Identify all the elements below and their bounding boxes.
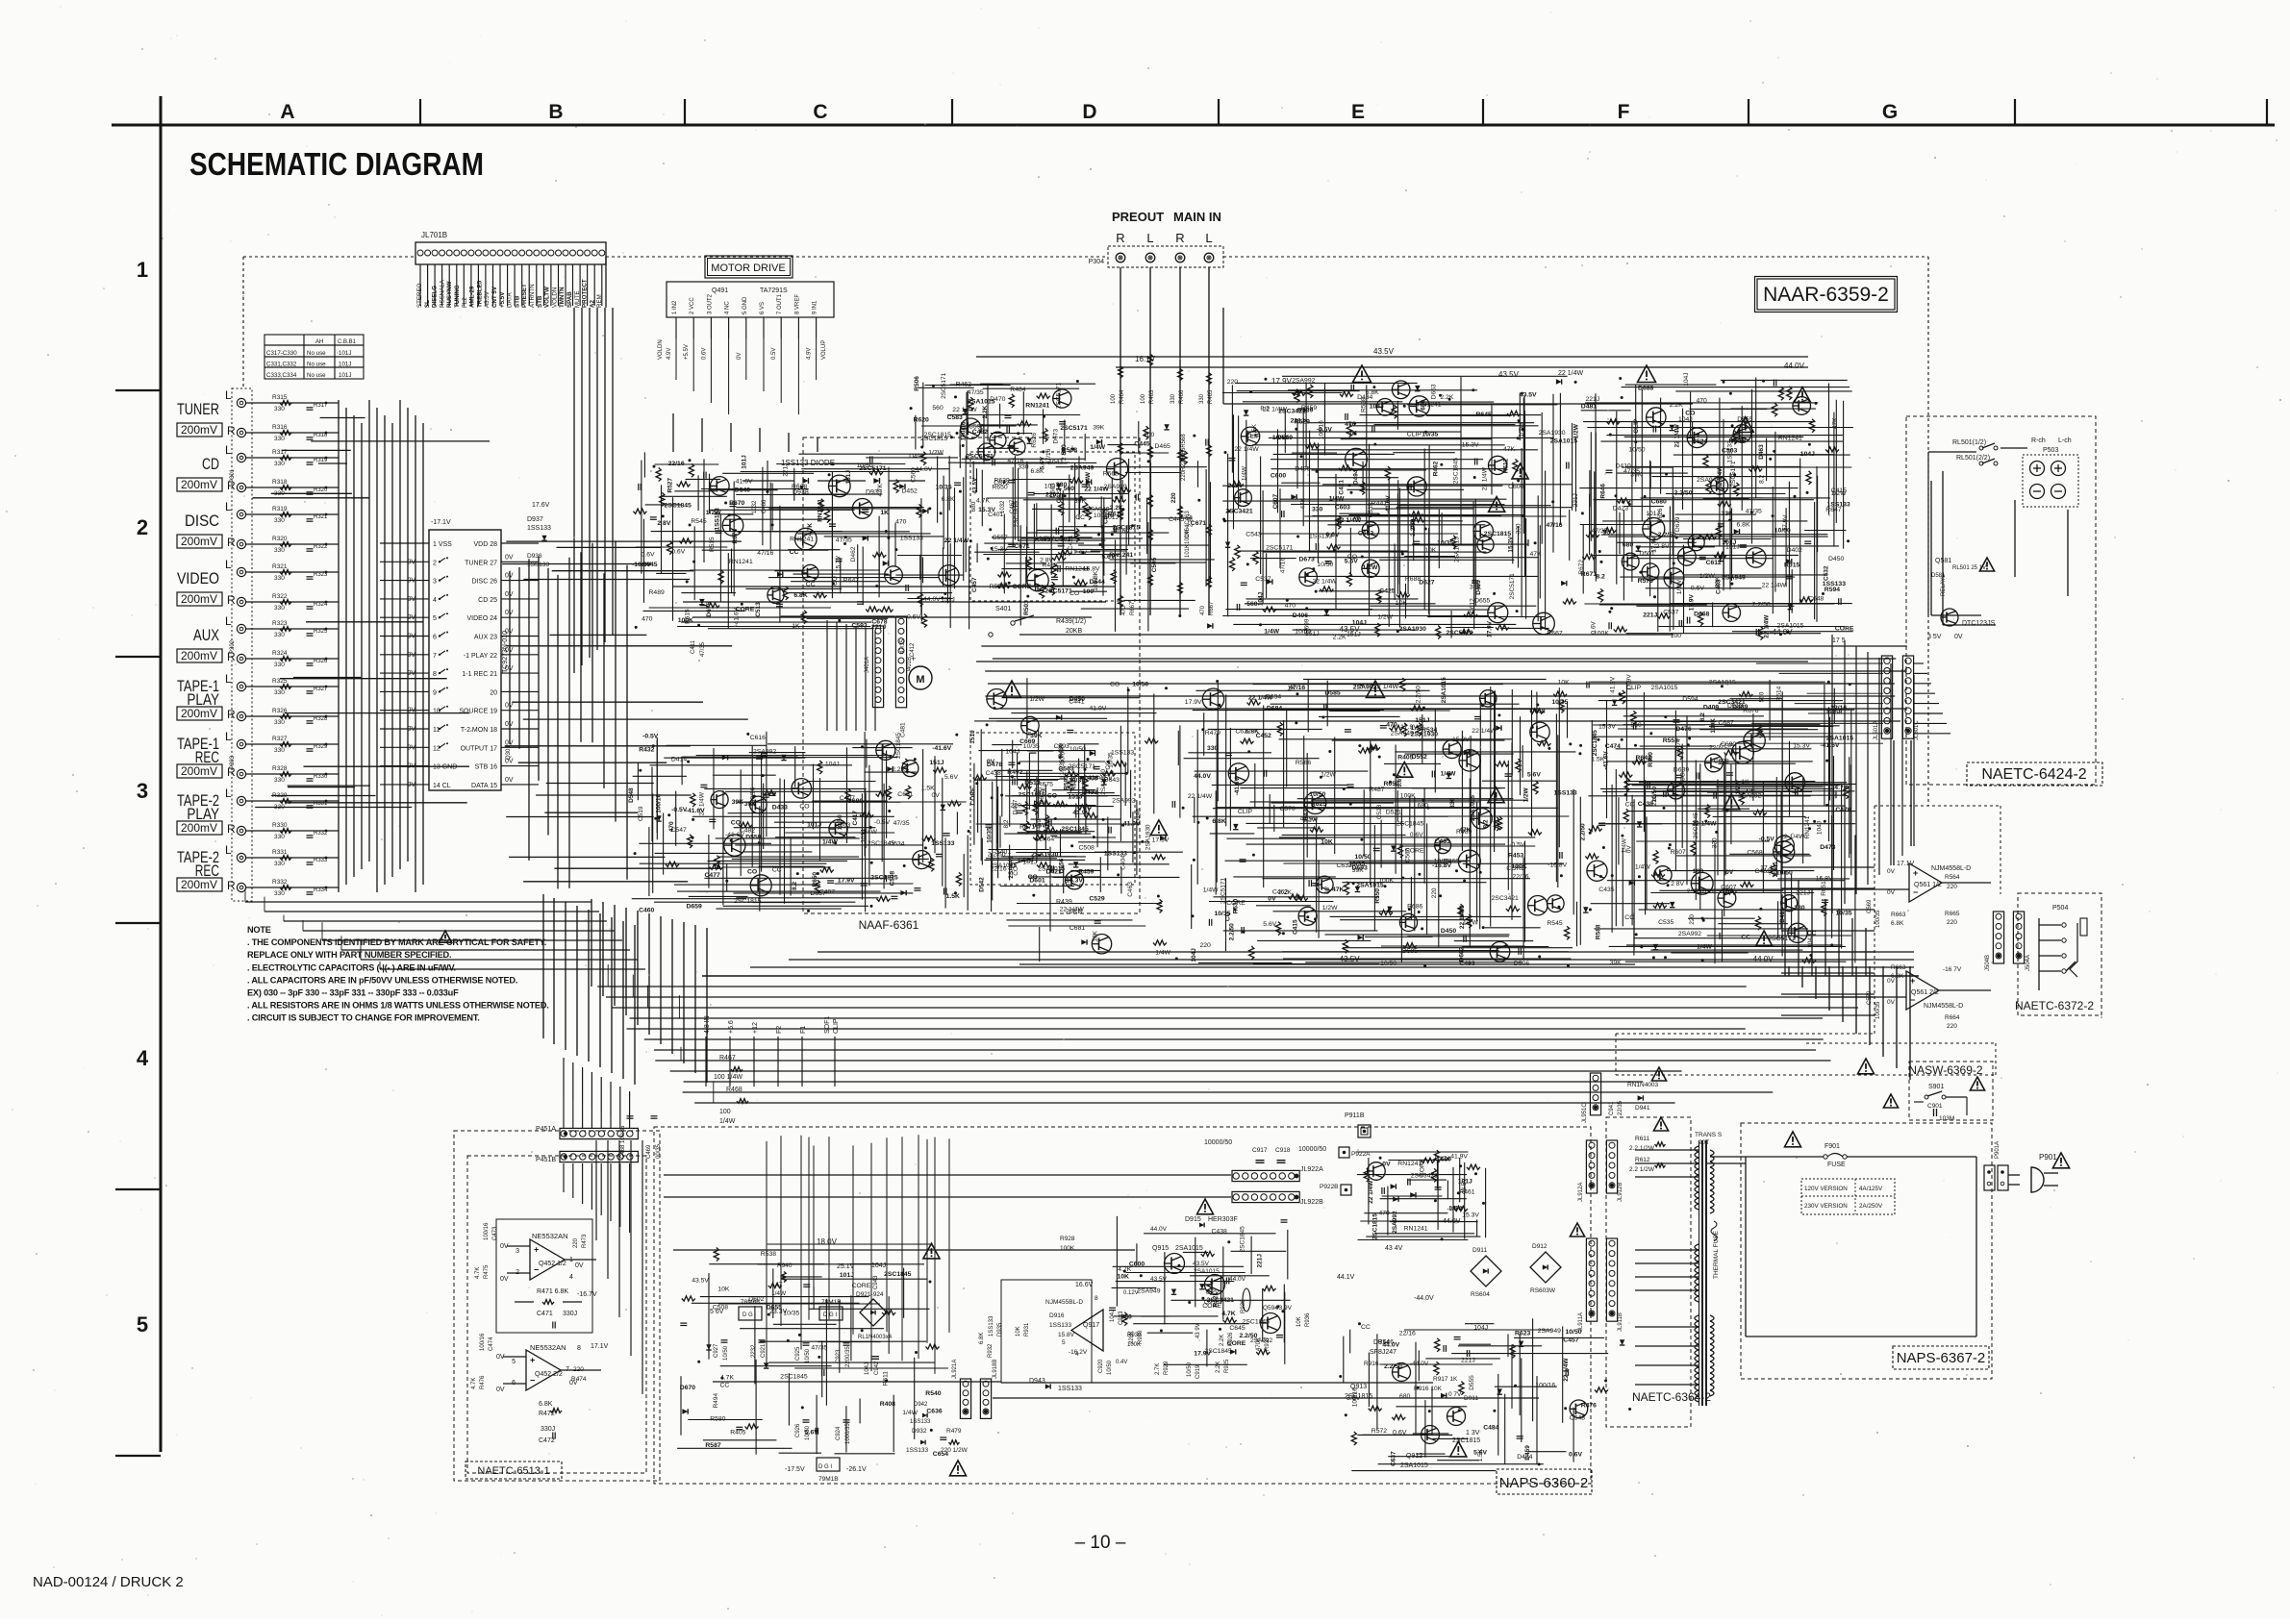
svg-text:2.2/50: 2.2/50 [988, 851, 1006, 858]
svg-text:41.9V: 41.9V [1609, 676, 1616, 693]
svg-text:D473: D473 [1820, 844, 1835, 851]
svg-text:104J: 104J [1110, 1310, 1116, 1322]
svg-text:C600: C600 [1508, 484, 1523, 490]
svg-text:22 1/4W: 22 1/4W [1780, 834, 1805, 840]
svg-text:C603: C603 [1335, 505, 1350, 512]
svg-text:C616: C616 [750, 735, 766, 741]
svg-text:2SC1845: 2SC1845 [895, 733, 902, 759]
svg-text:R461: R461 [1459, 1188, 1474, 1195]
svg-text:330: 330 [274, 662, 285, 668]
svg-text:−: − [1913, 887, 1918, 897]
svg-text:D450: D450 [1070, 696, 1085, 703]
svg-text:R514: R514 [1776, 686, 1783, 701]
svg-text:D: D [1082, 101, 1096, 123]
svg-text:100: 100 [1693, 868, 1704, 875]
svg-text:2SA949: 2SA949 [1104, 484, 1127, 490]
svg-text:Q912: Q912 [1406, 1453, 1422, 1460]
svg-text:Q594: Q594 [1263, 1305, 1278, 1312]
svg-text:C484: C484 [1483, 1424, 1498, 1431]
svg-text:220: 220 [1947, 884, 1957, 890]
svg-text:R468: R468 [726, 1087, 742, 1093]
svg-text:C636: C636 [926, 1408, 942, 1414]
svg-text:D465: D465 [1155, 443, 1170, 450]
svg-text:0.6V: 0.6V [701, 348, 707, 360]
svg-text:200mV: 200mV [181, 423, 217, 437]
svg-text:R439: R439 [1302, 806, 1309, 821]
svg-text:6.8K: 6.8K [1891, 920, 1904, 927]
svg-text:TUNING: TUNING [454, 285, 461, 308]
svg-text:10K: 10K [1118, 1274, 1130, 1281]
svg-text:14 CL: 14 CL [433, 783, 451, 789]
svg-text:10K: 10K [1016, 1326, 1021, 1337]
svg-text:2SC1815: 2SC1815 [1372, 1213, 1379, 1239]
svg-text:47/35: 47/35 [1746, 508, 1762, 514]
svg-text:C921: C921 [761, 1343, 767, 1358]
svg-text:330J: 330J [563, 1311, 577, 1317]
svg-text:C600: C600 [1129, 1262, 1145, 1268]
svg-text:1SS133: 1SS133 [1111, 749, 1134, 756]
svg-text:R940: R940 [777, 1262, 793, 1269]
svg-text:5.6V: 5.6V [1527, 772, 1541, 779]
svg-text:CO: CO [1110, 682, 1120, 688]
svg-text:JL918B: JL918B [993, 1360, 998, 1379]
svg-text:120V VERSION: 120V VERSION [1804, 1186, 1848, 1192]
svg-text:VOLTW: VOLTW [544, 287, 551, 308]
svg-text:5 6V: 5 6V [710, 1309, 724, 1315]
svg-text:No use: No use [307, 372, 326, 379]
svg-text:44.0V: 44.0V [923, 596, 941, 603]
svg-text:10/50: 10/50 [805, 1348, 811, 1363]
svg-text:1/4W: 1/4W [1329, 496, 1345, 503]
svg-text:100K: 100K [1060, 1245, 1075, 1252]
svg-text:C680: C680 [847, 798, 863, 805]
svg-text:104J: 104J [825, 762, 840, 768]
svg-text:22 1/4W: 22 1/4W [1234, 446, 1259, 453]
svg-text:SPAB: SPAB [566, 291, 573, 308]
svg-text:R674: R674 [732, 529, 739, 544]
svg-text:G: G [1882, 101, 1898, 123]
svg-text:C548: C548 [1570, 1414, 1585, 1421]
svg-text:R620: R620 [914, 417, 929, 424]
svg-text:22 1/4W: 22 1/4W [944, 537, 969, 544]
svg-text:C513: C513 [755, 602, 762, 617]
svg-text:44.0V: 44.0V [916, 466, 933, 473]
svg-text:200mV: 200mV [181, 478, 217, 491]
svg-text:2SC1845: 2SC1845 [1592, 730, 1598, 756]
svg-text:2SA949: 2SA949 [1697, 477, 1720, 484]
svg-text:-0.5V: -0.5V [874, 819, 891, 826]
svg-text:104J: 104J [1807, 935, 1814, 948]
svg-text:C632: C632 [1337, 862, 1352, 869]
svg-text:330: 330 [1056, 482, 1068, 488]
svg-text:470: 470 [1386, 722, 1397, 729]
svg-text:1/2W: 1/2W [1363, 564, 1378, 571]
svg-text:CLIP: CLIP [1626, 685, 1642, 691]
svg-text:2.2K: 2.2K [892, 766, 905, 773]
svg-text:-0.5V: -0.5V [1759, 836, 1775, 842]
svg-text:R564: R564 [1945, 874, 1960, 881]
svg-text:101J: 101J [339, 350, 351, 357]
svg-text:10K: 10K [1558, 680, 1571, 687]
svg-text:100/35: 100/35 [1875, 1001, 1881, 1019]
svg-text:-1 PLAY 22: -1 PLAY 22 [464, 653, 497, 660]
svg-text:0V: 0V [737, 353, 742, 360]
svg-text:3: 3 [137, 779, 148, 803]
svg-text:17 5: 17 5 [1832, 637, 1846, 644]
svg-text:2SC1815: 2SC1815 [870, 875, 898, 882]
svg-text:2SC3421: 2SC3421 [1718, 699, 1746, 706]
svg-text:104J: 104J [1678, 416, 1693, 423]
svg-text:220: 220 [1709, 745, 1721, 752]
svg-text:L: L [1205, 231, 1212, 245]
svg-text:R405: R405 [1397, 754, 1413, 761]
svg-text:C508: C508 [1079, 845, 1095, 852]
svg-text:C543: C543 [1246, 532, 1261, 538]
svg-text:L-ch: L-ch [2058, 437, 2072, 444]
svg-text:R441: R441 [1371, 500, 1387, 507]
svg-text:C473: C473 [492, 1226, 498, 1240]
svg-text:330: 330 [1722, 511, 1733, 517]
svg-text:D434: D434 [1357, 394, 1372, 401]
svg-text:R932: R932 [988, 1343, 994, 1358]
svg-text:2SC5171: 2SC5171 [1266, 545, 1294, 552]
svg-text:NE5532AN: NE5532AN [532, 1232, 568, 1240]
svg-text:1SS133: 1SS133 [527, 525, 551, 532]
svg-text:47/16: 47/16 [1045, 448, 1052, 464]
svg-text:D916: D916 [1049, 1312, 1065, 1319]
svg-text:22 1/4W: 22 1/4W [1313, 579, 1338, 586]
svg-text:1000/35: 1000/35 [845, 1423, 851, 1444]
svg-text:1/2W: 1/2W [1029, 696, 1044, 703]
svg-text:2SC5171: 2SC5171 [1069, 763, 1096, 770]
svg-text:R625: R625 [1311, 801, 1326, 808]
svg-text:100: 100 [719, 1109, 731, 1115]
svg-text:560: 560 [1759, 691, 1766, 702]
svg-text:2 8V: 2 8V [1061, 447, 1068, 461]
svg-text:Q452 1/2: Q452 1/2 [539, 1261, 566, 1267]
svg-text:D423: D423 [1613, 506, 1628, 512]
svg-text:C607: C607 [1272, 493, 1279, 509]
svg-text:470: 470 [1379, 1211, 1391, 1217]
svg-text:470K: 470K [1256, 1337, 1262, 1351]
svg-text:C529: C529 [1089, 895, 1104, 902]
svg-text:CORE: CORE [1226, 900, 1246, 907]
svg-text:D943: D943 [1029, 1378, 1045, 1385]
svg-text:2.2K: 2.2K [1440, 394, 1453, 401]
svg-text:44.0V: 44.0V [1784, 362, 1805, 370]
svg-text:C924: C924 [836, 1426, 842, 1440]
svg-text:2SA949: 2SA949 [1722, 575, 1746, 582]
svg-text:D513: D513 [1024, 780, 1040, 787]
svg-text:2SA992: 2SA992 [1392, 1211, 1398, 1234]
svg-text:D402: D402 [1787, 547, 1802, 554]
svg-text:R611: R611 [1635, 1136, 1649, 1142]
svg-text:100: 100 [1144, 432, 1155, 438]
svg-text:RUSYNW: RUSYNW [446, 281, 453, 308]
svg-text:+12: +12 [752, 1022, 759, 1034]
svg-text:-41.6V: -41.6V [725, 832, 744, 838]
svg-text:330: 330 [274, 861, 285, 867]
svg-text:CORE: CORE [736, 607, 755, 613]
svg-text:330: 330 [274, 890, 285, 897]
svg-text:L: L [1146, 231, 1153, 245]
svg-text:2SC5171: 2SC5171 [1768, 936, 1796, 942]
svg-text:CLIP: CLIP [833, 1018, 840, 1034]
svg-text:2SA1015: 2SA1015 [1651, 685, 1678, 691]
svg-text:CORE: CORE [1013, 584, 1032, 590]
svg-text:680: 680 [1399, 1393, 1411, 1400]
svg-text:R: R [227, 708, 236, 721]
svg-text:C317-C330: C317-C330 [266, 350, 297, 357]
svg-text:D450: D450 [1828, 556, 1844, 562]
svg-text:CC: CC [772, 867, 782, 874]
svg-text:15.3V: 15.3V [835, 555, 842, 572]
svg-text:R321: R321 [272, 563, 288, 570]
svg-text:8: 8 [577, 1345, 581, 1352]
svg-text:0.5V: 0.5V [771, 348, 777, 360]
svg-text:C669: C669 [1019, 738, 1035, 745]
svg-text:8.2: 8.2 [1482, 819, 1489, 828]
svg-text:330: 330 [274, 575, 285, 582]
svg-text:3: 3 [433, 579, 437, 586]
svg-text:1/2W: 1/2W [1463, 920, 1478, 927]
svg-text:C457: C457 [1563, 1337, 1578, 1344]
svg-text:39K: 39K [1610, 960, 1623, 966]
svg-text:10/50: 10/50 [1132, 681, 1148, 687]
svg-text:2SA1015: 2SA1015 [968, 399, 995, 406]
svg-text:5: 5 [512, 1359, 516, 1365]
svg-text:P911B: P911B [1345, 1112, 1365, 1119]
svg-text:13 GND: 13 GND [433, 764, 457, 771]
svg-text:R931: R931 [1024, 1322, 1030, 1337]
svg-text:D935: D935 [997, 1322, 1003, 1337]
svg-text:4.7K: 4.7K [807, 523, 814, 537]
svg-text:2SC5171: 2SC5171 [1060, 425, 1088, 432]
svg-text:1SS133: 1SS133 [1823, 581, 1846, 587]
svg-text:8.2: 8.2 [1260, 405, 1270, 412]
svg-text:R665: R665 [1945, 911, 1960, 917]
svg-text:D406: D406 [1293, 612, 1308, 619]
svg-text:R479: R479 [946, 1428, 962, 1435]
svg-text:C537: C537 [1255, 576, 1271, 583]
svg-text:470: 470 [1121, 605, 1127, 615]
svg-text:200mV: 200mV [181, 535, 217, 548]
svg-text:R501: R501 [1023, 600, 1030, 615]
svg-text:47/16: 47/16 [757, 550, 773, 557]
svg-text:22 1/4W: 22 1/4W [698, 791, 705, 815]
svg-text:680: 680 [970, 501, 977, 512]
svg-text:DATA: DATA [507, 292, 514, 308]
svg-text:151J: 151J [845, 470, 852, 485]
svg-text:EX) 030 -- 3pF 330 -- 33pF: EX) 030 -- 3pF 330 -- 33pF 331 -- 330pF … [247, 988, 459, 998]
svg-text:2.2K: 2.2K [982, 405, 989, 418]
svg-text:L: L [225, 787, 232, 800]
svg-text:C438: C438 [1212, 1229, 1227, 1236]
svg-text:D450: D450 [1441, 928, 1456, 935]
svg-text:0.6V: 0.6V [907, 614, 920, 621]
svg-text:41.9V: 41.9V [1072, 810, 1090, 816]
svg-text:47/35: 47/35 [968, 389, 984, 396]
svg-text:470: 470 [668, 821, 675, 832]
svg-text:10K: 10K [1396, 600, 1408, 607]
svg-text:5.6V: 5.6V [1263, 921, 1276, 928]
svg-text:1SS133: 1SS133 [1049, 1322, 1072, 1329]
svg-text:17.1V: 17.1V [591, 1343, 609, 1350]
svg-text:10/35: 10/35 [1434, 859, 1450, 865]
svg-text:SOF1: SOF1 [824, 1016, 831, 1034]
svg-text:R439: R439 [1056, 899, 1072, 906]
svg-text:CC: CC [1075, 514, 1085, 521]
svg-text:R664: R664 [1945, 1014, 1960, 1021]
svg-text:R612: R612 [1503, 458, 1510, 473]
svg-text:D534: D534 [889, 840, 904, 847]
svg-text:P451A: P451A [536, 1126, 556, 1133]
svg-text:1SS133: 1SS133 [1827, 502, 1850, 509]
svg-text:D627: D627 [1419, 579, 1434, 586]
svg-text:0V: 0V [1954, 634, 1963, 640]
svg-text:10/50: 10/50 [1107, 1360, 1113, 1375]
svg-text:10/50: 10/50 [1070, 746, 1086, 753]
svg-text:1 IN2: 1 IN2 [672, 300, 678, 314]
svg-text:JL921A: JL921A [952, 1360, 958, 1379]
svg-text:15.3V: 15.3V [1452, 737, 1470, 743]
svg-text:1/4W: 1/4W [862, 829, 877, 836]
svg-text:0V: 0V [496, 1387, 505, 1393]
svg-text:20KB: 20KB [1066, 628, 1082, 635]
svg-text:R328: R328 [272, 765, 288, 772]
svg-text:2SA1930: 2SA1930 [1411, 731, 1439, 737]
svg-text:220 1/2W: 220 1/2W [941, 1447, 969, 1454]
svg-text:C926: C926 [795, 1423, 801, 1437]
svg-text:22/16: 22/16 [668, 461, 685, 467]
svg-text:0.6V: 0.6V [1410, 832, 1423, 838]
svg-text:R929: R929 [1164, 1361, 1170, 1375]
svg-text:47K: 47K [1832, 417, 1839, 429]
svg-text:L: L [225, 843, 232, 857]
svg-text:L: L [225, 730, 232, 743]
svg-text:TUNER: TUNER [177, 400, 219, 418]
svg-text:NAAR-6359-2: NAAR-6359-2 [1763, 284, 1889, 306]
svg-text:1/4W: 1/4W [1441, 770, 1456, 777]
svg-text:D552: D552 [1412, 754, 1427, 761]
svg-text:39K: 39K [1352, 867, 1365, 874]
svg-text:470: 470 [895, 519, 907, 526]
svg-text:2SA992: 2SA992 [1292, 378, 1315, 385]
svg-text:22/16: 22/16 [1513, 873, 1529, 880]
svg-text:R475: R475 [484, 1264, 490, 1279]
svg-text:D932: D932 [912, 1428, 927, 1435]
svg-text:100K: 100K [678, 617, 693, 624]
svg-text:0V: 0V [1268, 895, 1276, 902]
svg-text:C445: C445 [1134, 441, 1149, 448]
svg-text:6.8K: 6.8K [942, 496, 955, 503]
svg-text:C.B.B1: C.B.B1 [338, 339, 357, 345]
svg-text:R432: R432 [639, 747, 654, 754]
svg-text:C415: C415 [1831, 487, 1847, 494]
svg-text:560: 560 [1246, 601, 1258, 608]
svg-text:R: R [227, 822, 236, 836]
svg-text:-44 0V: -44 0V [1770, 628, 1793, 637]
svg-text:VIDEO: VIDEO [177, 569, 219, 587]
svg-text:R323: R323 [272, 620, 288, 627]
svg-text:C452: C452 [1256, 733, 1271, 739]
svg-text:C457: C457 [971, 577, 978, 592]
svg-text:R316: R316 [272, 424, 288, 431]
svg-text:220: 220 [1011, 803, 1022, 810]
svg-text:TC9273N-010: TC9273N-010 [502, 631, 509, 673]
svg-text:R476: R476 [1581, 1403, 1597, 1410]
svg-text:C917: C917 [1252, 1147, 1268, 1154]
svg-text:C920: C920 [1098, 1359, 1104, 1373]
svg-text:4.7K: 4.7K [877, 483, 884, 496]
svg-text:C680: C680 [1651, 498, 1667, 505]
svg-text:3 5V: 3 5V [1927, 634, 1942, 640]
svg-text:8.2: 8.2 [1003, 819, 1010, 828]
svg-text:2SC1845: 2SC1845 [665, 503, 692, 510]
svg-text:2SC1845: 2SC1845 [1452, 458, 1459, 484]
svg-text:103M: 103M [1939, 1115, 1954, 1122]
svg-text:2 VCC: 2 VCC [690, 297, 695, 314]
svg-text:2.2 1/2W: 2.2 1/2W [1629, 1166, 1655, 1173]
svg-text:330: 330 [274, 461, 285, 467]
svg-text:SCHEMATIC DIAGRAM: SCHEMATIC DIAGRAM [189, 146, 484, 182]
svg-text:2SC5171: 2SC5171 [941, 372, 947, 398]
svg-text:8: 8 [433, 671, 437, 678]
svg-text:78M66: 78M66 [741, 1299, 760, 1306]
svg-text:1/2W: 1/2W [1377, 614, 1393, 621]
svg-text:Q913: Q913 [1350, 1384, 1367, 1390]
svg-text:330: 330 [274, 436, 285, 442]
svg-text:Q452 2/2: Q452 2/2 [535, 1371, 563, 1378]
svg-text:0V: 0V [575, 1262, 584, 1269]
svg-text:2SC3421: 2SC3421 [1411, 1173, 1439, 1180]
svg-text:43.5V: 43.5V [1193, 1261, 1210, 1267]
svg-text:R936: R936 [1305, 1312, 1311, 1327]
svg-text:MUTE: MUTE [574, 290, 581, 308]
svg-text:100K: 100K [1511, 863, 1526, 870]
svg-text:2: 2 [433, 560, 437, 566]
svg-text:JL951C: JL951C [1582, 1103, 1588, 1123]
svg-text:200mV: 200mV [181, 878, 217, 891]
svg-text:6.8K: 6.8K [1212, 818, 1225, 825]
svg-text:-16.7V: -16.7V [577, 1291, 597, 1298]
svg-text:DTC123JS: DTC123JS [1962, 620, 1996, 627]
svg-text:0V: 0V [1725, 869, 1734, 876]
svg-text:100/16: 100/16 [484, 1222, 490, 1240]
svg-text:47/16: 47/16 [1279, 558, 1286, 574]
svg-text:330: 330 [274, 747, 285, 754]
svg-text:2.7K: 2.7K [1155, 1363, 1161, 1375]
svg-text:18 0V: 18 0V [817, 1237, 838, 1246]
svg-text:10/50: 10/50 [837, 814, 843, 831]
svg-text:2A/250V: 2A/250V [1859, 1203, 1883, 1210]
svg-text:101J: 101J [807, 822, 821, 829]
svg-text:0V: 0V [1382, 1161, 1391, 1167]
svg-text:D549: D549 [1277, 435, 1293, 441]
svg-text:D495: D495 [1295, 466, 1310, 473]
svg-text:RN1241: RN1241 [818, 499, 824, 522]
svg-text:2SC1815: 2SC1815 [734, 898, 762, 905]
svg-text:78M1B: 78M1B [821, 1299, 842, 1306]
svg-text:SOURCE 19: SOURCE 19 [459, 709, 497, 715]
svg-text:4A/125V: 4A/125V [1859, 1186, 1883, 1192]
svg-text:2 8V: 2 8V [1656, 543, 1670, 550]
svg-text:D659: D659 [687, 903, 702, 910]
svg-text:-0.5V: -0.5V [642, 733, 659, 739]
svg-text:2SC1845: 2SC1845 [1240, 1226, 1246, 1252]
svg-text:17.1V: 17.1V [1897, 861, 1915, 867]
svg-text:0V: 0V [932, 792, 941, 799]
